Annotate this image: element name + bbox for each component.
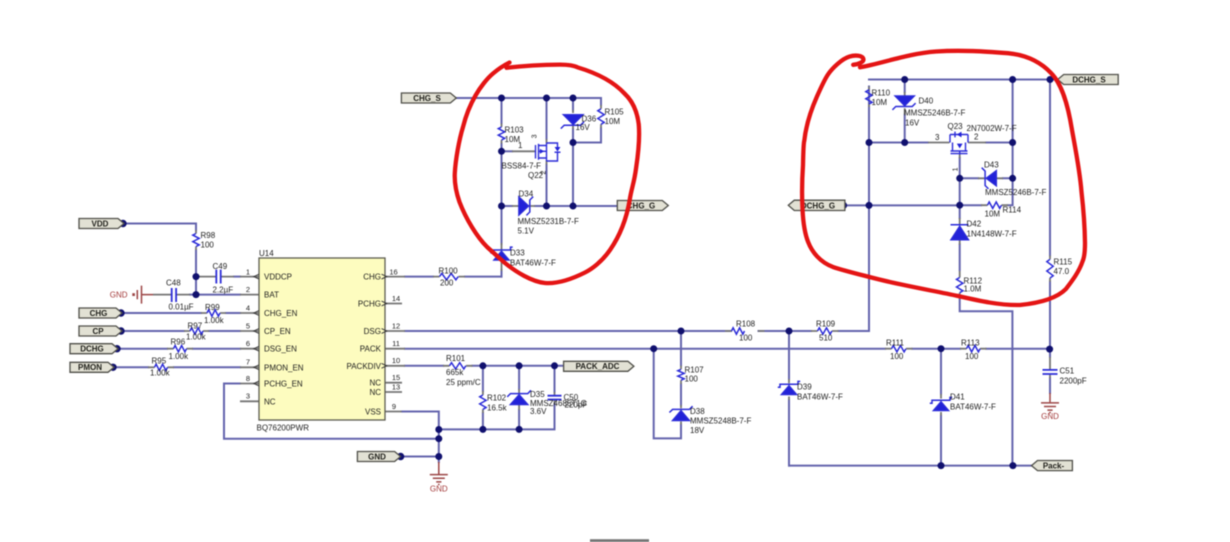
svg-text:D35: D35	[530, 390, 545, 399]
svg-text:CHG: CHG	[90, 309, 108, 318]
svg-text:10: 10	[392, 356, 400, 365]
svg-text:D34: D34	[519, 190, 534, 199]
svg-text:1.00k: 1.00k	[169, 352, 190, 361]
svg-text:BAT46W-7-F: BAT46W-7-F	[797, 393, 843, 402]
svg-text:25 ppm/C: 25 ppm/C	[446, 378, 481, 387]
svg-text:CP: CP	[92, 327, 104, 336]
svg-text:3: 3	[935, 133, 940, 142]
svg-text:MMSZ5248B-7-F: MMSZ5248B-7-F	[690, 417, 751, 426]
svg-text:CHG: CHG	[363, 273, 381, 282]
svg-text:D42: D42	[967, 220, 982, 229]
svg-text:R98: R98	[201, 231, 216, 240]
svg-text:10M: 10M	[985, 210, 1001, 219]
svg-text:11: 11	[392, 339, 400, 348]
svg-text:D43: D43	[984, 161, 999, 170]
svg-text:2: 2	[541, 171, 548, 175]
svg-text:GND: GND	[1041, 412, 1059, 421]
svg-text:D41: D41	[950, 393, 965, 402]
svg-text:BAT46W-7-F: BAT46W-7-F	[510, 259, 556, 268]
svg-text:C49: C49	[213, 262, 228, 271]
svg-text:R95: R95	[152, 356, 167, 365]
svg-text:BSS84-7-F: BSS84-7-F	[502, 162, 542, 171]
svg-text:1.0M: 1.0M	[964, 285, 982, 294]
svg-text:100: 100	[965, 352, 979, 361]
svg-text:VDDCP: VDDCP	[264, 273, 292, 282]
svg-text:DCHG_S: DCHG_S	[1072, 75, 1106, 84]
svg-text:R107: R107	[685, 365, 705, 374]
svg-text:NC: NC	[264, 397, 276, 406]
svg-text:GND: GND	[430, 485, 448, 494]
svg-text:2200pF: 2200pF	[1060, 376, 1087, 385]
svg-text:D33: D33	[510, 249, 525, 258]
svg-text:18V: 18V	[690, 426, 705, 435]
svg-text:2: 2	[246, 285, 250, 294]
svg-text:200: 200	[440, 279, 454, 288]
svg-text:16.5k: 16.5k	[487, 404, 508, 413]
svg-text:14: 14	[392, 294, 400, 303]
svg-text:16: 16	[389, 268, 397, 277]
svg-text:C48: C48	[166, 278, 181, 287]
svg-text:R111: R111	[886, 338, 904, 347]
svg-text:R110: R110	[872, 89, 891, 98]
svg-text:47.0: 47.0	[1054, 267, 1070, 276]
svg-text:BQ76200PWR: BQ76200PWR	[257, 424, 310, 433]
svg-text:R97: R97	[188, 321, 203, 330]
svg-text:8: 8	[246, 374, 250, 383]
svg-text:9: 9	[392, 402, 396, 411]
svg-text:PCHG: PCHG	[358, 300, 381, 309]
svg-text:2: 2	[974, 132, 979, 141]
svg-text:4: 4	[246, 303, 250, 312]
svg-text:R109: R109	[816, 320, 836, 329]
svg-text:GND: GND	[368, 452, 386, 461]
svg-text:VSS: VSS	[365, 408, 381, 417]
svg-text:5.1V: 5.1V	[518, 227, 535, 236]
svg-text:NC: NC	[369, 379, 381, 388]
svg-text:D40: D40	[919, 97, 934, 106]
svg-text:15: 15	[392, 373, 400, 382]
svg-text:D38: D38	[690, 407, 705, 416]
svg-text:R99: R99	[205, 303, 220, 312]
svg-text:BAT: BAT	[264, 291, 279, 300]
svg-text:665k: 665k	[446, 368, 464, 377]
svg-text:1: 1	[953, 167, 960, 171]
svg-text:DSG_EN: DSG_EN	[264, 345, 297, 354]
svg-text:PACK_ADC: PACK_ADC	[576, 362, 620, 371]
svg-text:100: 100	[890, 352, 904, 361]
svg-text:R100: R100	[439, 267, 459, 276]
svg-text:CHG_EN: CHG_EN	[264, 309, 298, 318]
svg-text:R101: R101	[446, 354, 466, 363]
svg-text:DCHG_G: DCHG_G	[801, 201, 835, 210]
svg-text:R96: R96	[171, 338, 186, 347]
svg-text:100: 100	[685, 375, 699, 384]
svg-text:R115: R115	[1054, 258, 1073, 267]
svg-text:2.2µF: 2.2µF	[213, 286, 234, 295]
svg-text:DSG: DSG	[364, 327, 381, 336]
svg-text:16V: 16V	[576, 123, 591, 132]
svg-text:R113: R113	[961, 338, 980, 347]
svg-text:0.01µF: 0.01µF	[169, 303, 194, 312]
svg-text:R108: R108	[736, 320, 756, 329]
svg-text:100: 100	[739, 333, 753, 342]
svg-text:BAT46W-7-F: BAT46W-7-F	[950, 403, 996, 412]
svg-text:1N4148W-7-F: 1N4148W-7-F	[967, 230, 1017, 239]
svg-text:6: 6	[246, 339, 250, 348]
svg-text:3: 3	[532, 134, 539, 138]
svg-text:10M: 10M	[605, 117, 621, 126]
svg-text:3.6V: 3.6V	[530, 407, 547, 416]
svg-text:13: 13	[392, 382, 400, 391]
svg-text:10M: 10M	[872, 98, 888, 107]
svg-text:PACKDIV: PACKDIV	[346, 362, 381, 371]
svg-text:CP_EN: CP_EN	[264, 327, 291, 336]
svg-text:Pack-: Pack-	[1043, 462, 1065, 471]
svg-text:1: 1	[518, 141, 523, 150]
svg-text:CHG_S: CHG_S	[413, 94, 441, 103]
svg-text:1: 1	[246, 268, 250, 277]
svg-text:12: 12	[392, 321, 400, 330]
svg-text:C51: C51	[1060, 366, 1075, 375]
svg-text:PACK: PACK	[360, 345, 382, 354]
svg-text:Q23: Q23	[948, 122, 964, 131]
svg-text:PMON_EN: PMON_EN	[264, 363, 304, 372]
svg-text:U14: U14	[259, 249, 274, 258]
svg-text:1.00k: 1.00k	[150, 368, 171, 377]
svg-text:R102: R102	[487, 394, 507, 403]
svg-text:D39: D39	[797, 383, 812, 392]
svg-text:7: 7	[246, 358, 250, 367]
svg-text:DCHG: DCHG	[80, 345, 104, 354]
svg-text:MMSZ5246B-7-F: MMSZ5246B-7-F	[985, 188, 1046, 197]
svg-text:MMSZ5231B-7-F: MMSZ5231B-7-F	[518, 217, 579, 226]
svg-text:510: 510	[819, 333, 833, 342]
svg-text:R105: R105	[605, 108, 625, 117]
svg-text:1.00k: 1.00k	[204, 316, 225, 325]
svg-text:R103: R103	[505, 126, 525, 135]
svg-text:3: 3	[246, 392, 250, 401]
svg-text:5: 5	[246, 321, 250, 330]
svg-text:1.00k: 1.00k	[186, 333, 207, 342]
svg-text:16V: 16V	[905, 119, 920, 128]
svg-text:100: 100	[201, 241, 215, 250]
svg-text:PMON: PMON	[78, 363, 102, 372]
svg-text:NC: NC	[369, 388, 381, 397]
svg-text:MMSZ5246B-7-F: MMSZ5246B-7-F	[904, 109, 965, 118]
svg-text:VDD: VDD	[92, 219, 109, 228]
svg-text:R114: R114	[1003, 206, 1022, 215]
svg-text:GND: GND	[110, 291, 128, 300]
svg-text:PCHG_EN: PCHG_EN	[264, 380, 303, 389]
